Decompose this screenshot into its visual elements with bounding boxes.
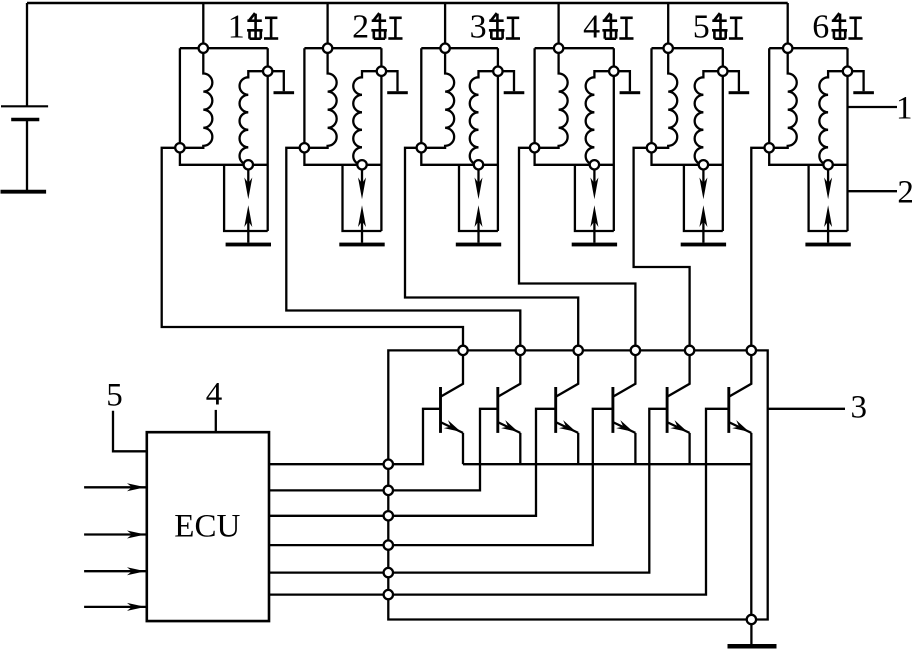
svg-text:2: 2 [897,174,912,210]
svg-text:3: 3 [850,390,867,426]
svg-text:5: 5 [693,9,710,46]
svg-text:4: 4 [206,377,223,413]
svg-text:5: 5 [106,377,123,413]
svg-text:1: 1 [228,9,245,46]
svg-text:2: 2 [352,9,369,46]
svg-text:6: 6 [812,9,829,46]
svg-text:3: 3 [470,9,487,46]
svg-text:1: 1 [896,91,912,127]
svg-text:ECU: ECU [174,509,240,545]
svg-text:4: 4 [583,9,600,46]
